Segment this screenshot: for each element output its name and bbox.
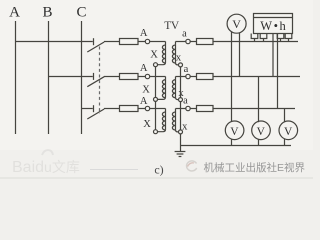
- PT unit 3 : terminal x3: [179, 122, 189, 134]
- svg-text:机械工业出版社E视界: 机械工业出版社E视界: [204, 161, 306, 174]
- PT unit 1 : terminal a1: [176, 29, 191, 44]
- svg-text:A: A: [140, 28, 148, 39]
- wire tap phase B: [49, 76, 93, 78]
- wire phase c line: [213, 108, 295, 110]
- wire tap phase C: [82, 108, 93, 110]
- svg-text:V: V: [230, 126, 239, 138]
- wire phase b line: [213, 76, 300, 78]
- PT unit 2 : terminal A2: [140, 63, 166, 79]
- svg-text:a: a: [183, 96, 188, 107]
- PT unit 2 : terminal X2: [142, 85, 157, 102]
- busbar B wire: [48, 21, 50, 134]
- meter terminal hook 2: [260, 34, 267, 42]
- PT unit 1 : terminal x1: [176, 53, 183, 67]
- svg-text:V: V: [232, 17, 241, 31]
- PT unit 1 : primary winding: [158, 42, 166, 65]
- svg-text:A: A: [9, 5, 20, 21]
- switch QS pole 1: [87, 38, 119, 52]
- switch QS pole 2: [87, 73, 119, 87]
- wire meter voltage lead to phase c: [277, 34, 279, 109]
- fuse FU2 phase b: [190, 74, 213, 80]
- PT unit 3 : primary winding: [158, 109, 166, 132]
- publisher watermark logo: [187, 161, 197, 171]
- busbar C wire: [81, 21, 83, 134]
- PT unit 1 : terminal X1: [150, 50, 158, 67]
- PT unit 2 : terminal a2: [176, 64, 191, 79]
- svg-text:Baidu文库: Baidu文库: [12, 159, 80, 176]
- svg-text:c): c): [154, 163, 163, 177]
- watt-hour meter PJ box: [254, 14, 293, 34]
- wire x3 to earth: [180, 134, 182, 152]
- svg-text:V: V: [284, 126, 293, 138]
- svg-text:x: x: [182, 122, 188, 133]
- PT unit 3 : terminal A3: [140, 96, 166, 111]
- svg-text:a: a: [182, 29, 187, 40]
- paper background: [0, 0, 313, 182]
- wire X1 to X2: [155, 67, 157, 98]
- neutral bus wire: [181, 145, 292, 147]
- wire meter voltage lead to phase b: [272, 34, 274, 77]
- fuse FU2 phase a: [190, 39, 213, 45]
- meter terminal hook 3: [277, 34, 284, 42]
- svg-text:V: V: [257, 126, 266, 138]
- wire PV0 left lead to PV1: [231, 31, 233, 122]
- svg-text:X: X: [150, 50, 158, 61]
- wire PV1 to neutral: [231, 139, 233, 146]
- PT unit 3 : terminal a3: [176, 96, 191, 111]
- svg-text:A: A: [140, 63, 148, 74]
- meter terminal hook 4: [285, 34, 292, 42]
- wire phase a line: [213, 41, 298, 43]
- fuse FU1 phase C: [120, 106, 146, 112]
- fuse FU1 phase A: [120, 39, 146, 45]
- wire PV3 to neutral: [284, 139, 286, 146]
- svg-text:X: X: [143, 119, 151, 130]
- wire PV2 to neutral: [258, 139, 260, 145]
- baidu watermark (faint): [12, 150, 80, 176]
- voltmeter PV3: [279, 121, 298, 140]
- wire tap phase A: [16, 41, 93, 43]
- svg-text:x: x: [176, 53, 182, 64]
- PT unit 2 : primary winding: [158, 77, 166, 100]
- fuse FU1 phase B: [120, 74, 146, 80]
- switch QS pole 3: [87, 105, 119, 119]
- svg-text:TV: TV: [164, 20, 180, 32]
- PT unit 1 : terminal A1: [140, 28, 166, 44]
- svg-text:C: C: [76, 5, 86, 21]
- svg-text:B: B: [42, 5, 52, 21]
- voltmeter PV1: [225, 121, 244, 140]
- wire phase c to PV3: [284, 109, 286, 123]
- fuse FU2 phase c: [190, 106, 213, 112]
- voltmeter PV2: [252, 121, 271, 140]
- busbar A wire: [15, 21, 17, 134]
- voltmeter PV0 (top): [227, 14, 246, 33]
- svg-text:A: A: [140, 96, 148, 107]
- switch gang link (dashed): [99, 47, 101, 115]
- wire x1 to x2: [180, 67, 182, 98]
- PT unit 1 : secondary winding: [172, 42, 178, 65]
- wire phase b to PV2: [258, 77, 260, 123]
- svg-text:X: X: [142, 85, 150, 96]
- wire X2 to X3: [155, 101, 157, 129]
- meter terminal hook 1: [251, 34, 258, 42]
- ground symbol: [175, 152, 186, 157]
- wire PV0 right lead to phase b: [239, 33, 241, 77]
- PT unit 3 : terminal X3: [143, 119, 157, 134]
- svg-text:a: a: [184, 64, 189, 75]
- wire x2 to x3: [180, 102, 182, 130]
- PT unit 2 : terminal x2: [178, 88, 184, 102]
- PT unit 2 : secondary winding: [172, 77, 178, 100]
- svg-text:W•h: W•h: [260, 19, 286, 33]
- PT unit 3 : secondary winding: [172, 109, 178, 132]
